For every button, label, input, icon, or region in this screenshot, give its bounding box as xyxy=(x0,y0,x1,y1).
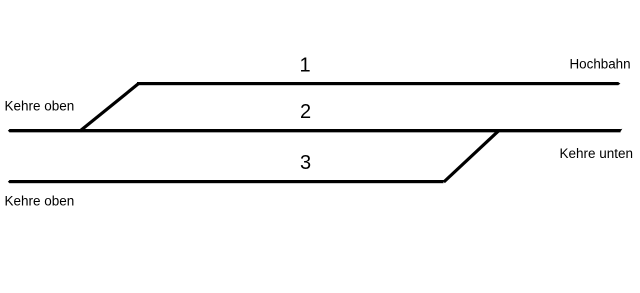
svg-text:1: 1 xyxy=(300,54,311,76)
track 2 line xyxy=(9,129,620,132)
track 3 left end tip xyxy=(8,180,10,183)
switch upper: track 2 to track 1 xyxy=(80,84,138,131)
svg-text:3: 3 xyxy=(300,152,311,174)
track 2 right end tip xyxy=(620,129,622,132)
track 1 right end tip xyxy=(618,82,620,85)
svg-text:Kehre oben: Kehre oben xyxy=(5,99,75,114)
track 2 left end tip xyxy=(8,129,10,132)
track 1 line (Hochbahn) xyxy=(137,82,619,85)
svg-text:2: 2 xyxy=(300,101,311,123)
switch lower: track 3 to track 2 xyxy=(444,131,499,182)
svg-text:Kehre oben: Kehre oben xyxy=(5,193,75,208)
svg-text:Hochbahn: Hochbahn xyxy=(570,57,631,72)
svg-text:Kehre unten: Kehre unten xyxy=(559,146,633,161)
track 3 line xyxy=(9,180,443,183)
